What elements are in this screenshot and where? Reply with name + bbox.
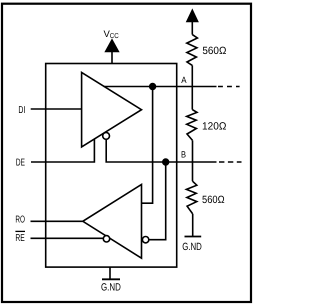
bubble driver inverted output bbox=[103, 133, 110, 140]
bubble receiver inverting input bbox=[142, 237, 148, 243]
svg-text:560Ω: 560Ω bbox=[202, 45, 226, 57]
svg-text:DI: DI bbox=[18, 105, 25, 116]
svg-text:G.ND: G.ND bbox=[182, 241, 202, 253]
resistor R3 560 ohm bbox=[186, 181, 196, 214]
wire driver output to A bbox=[104, 86, 217, 88]
svg-text:RO: RO bbox=[15, 215, 25, 226]
wire R3 to ground bbox=[192, 214, 194, 237]
bubble receiver enable bbox=[103, 236, 109, 242]
ground rail bbox=[182, 237, 202, 254]
Vcc arrow right rail bbox=[187, 10, 198, 21]
node B junction dot bbox=[163, 159, 169, 165]
wire A dashed continuation bbox=[218, 86, 240, 88]
resistor R1 560 ohm bbox=[187, 35, 198, 66]
wire DI input bbox=[31, 108, 82, 110]
svg-text:B: B bbox=[181, 150, 186, 160]
wire RO output bbox=[31, 220, 83, 222]
op-amp U1a driver bbox=[82, 73, 142, 147]
svg-text:560Ω: 560Ω bbox=[202, 194, 225, 206]
wire B dashed continuation bbox=[219, 161, 242, 163]
node A junction dot bbox=[150, 84, 156, 90]
wire A to receiver input bbox=[142, 87, 153, 204]
svg-text:RE: RE bbox=[15, 233, 25, 244]
wire node A to R2 bbox=[191, 87, 193, 110]
Vcc label bbox=[104, 29, 119, 40]
wire Vcc stem bbox=[111, 51, 113, 64]
svg-text:DE: DE bbox=[16, 158, 25, 169]
wire node B to R3 bbox=[192, 162, 194, 181]
wire R2 to node B bbox=[192, 140, 194, 162]
op-amp U1b receiver bbox=[83, 185, 142, 259]
wire DE input bbox=[31, 139, 94, 162]
ground IC bbox=[101, 267, 121, 293]
IC box U1 bbox=[46, 64, 177, 268]
wire arrow to R1 bbox=[191, 21, 193, 35]
Vcc arrow bbox=[106, 40, 119, 52]
svg-text:CC: CC bbox=[110, 33, 119, 40]
wire R1 to node A bbox=[191, 65, 193, 86]
svg-text:G.ND: G.ND bbox=[101, 282, 121, 294]
wire RE input bbox=[31, 237, 104, 239]
resistor R2 120 ohm bbox=[187, 110, 197, 141]
border frame bbox=[2, 4, 251, 302]
svg-text:120Ω: 120Ω bbox=[202, 121, 227, 133]
svg-text:A: A bbox=[181, 75, 186, 85]
wire inverted output to B bbox=[106, 139, 216, 162]
wire B to receiver inverting input bbox=[149, 162, 166, 240]
